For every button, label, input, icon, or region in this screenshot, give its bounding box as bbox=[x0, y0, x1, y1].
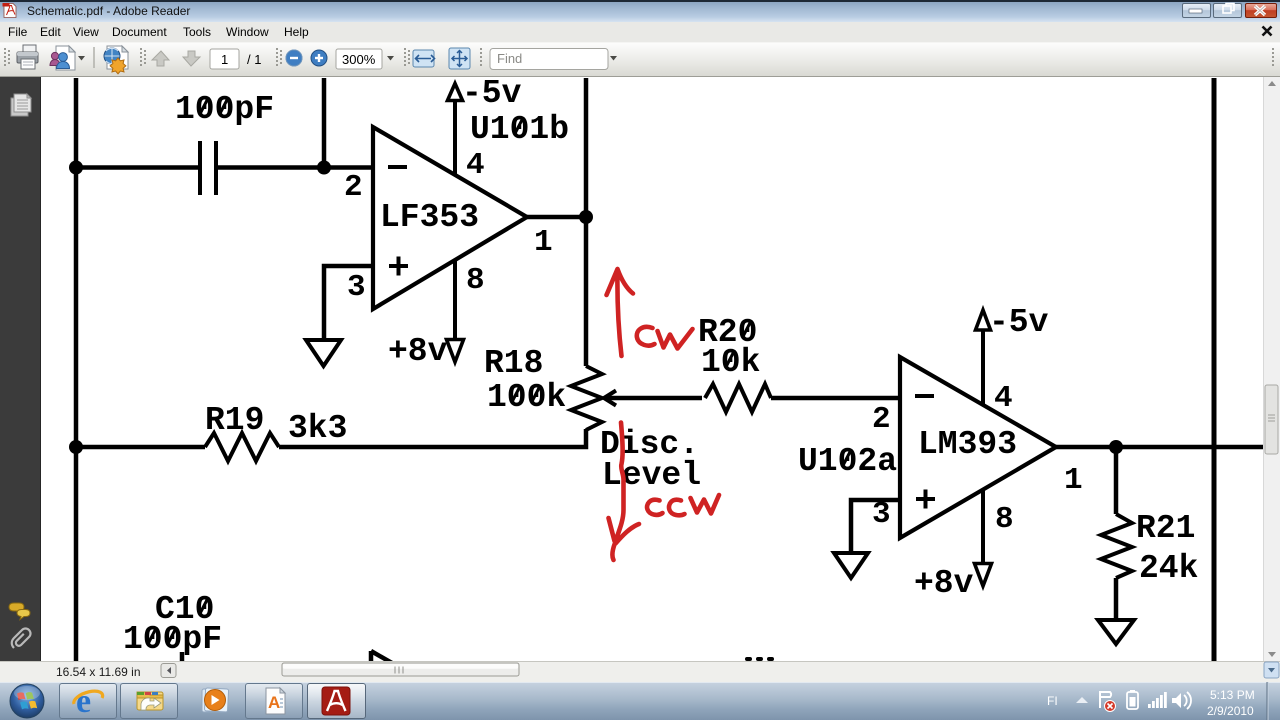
svg-text:1: 1 bbox=[534, 225, 553, 260]
svg-text:U102a: U102a bbox=[798, 443, 897, 480]
tray network bbox=[1148, 692, 1167, 708]
svg-text:3: 3 bbox=[347, 270, 366, 305]
svg-text:100pF: 100pF bbox=[123, 621, 222, 658]
word-doc icon bbox=[266, 688, 285, 714]
svg-text:-5v: -5v bbox=[989, 304, 1049, 341]
find box bbox=[490, 49, 608, 70]
svg-text:-5v: -5v bbox=[462, 75, 522, 112]
svg-text:e: e bbox=[76, 683, 91, 720]
resistor R20 body bbox=[705, 384, 771, 412]
node E junction dot bbox=[69, 440, 83, 454]
tray chevron bbox=[1076, 697, 1088, 703]
ground at R21 bbox=[1098, 620, 1134, 644]
wire node B up to top bbox=[322, 78, 327, 168]
zoom out / in bbox=[286, 50, 302, 66]
svg-text:24k: 24k bbox=[1139, 550, 1198, 587]
op-amp partial triangle at bottom edge bbox=[371, 651, 392, 663]
svg-text:LM393: LM393 bbox=[918, 426, 1017, 463]
node A junction dot bbox=[69, 161, 83, 175]
wire node B to U101 pin2 bbox=[324, 165, 373, 170]
fit page icon bbox=[449, 48, 470, 69]
svg-text:+8v: +8v bbox=[914, 565, 974, 602]
wire U101 pin3 bbox=[324, 266, 373, 340]
nav arrows bbox=[152, 51, 169, 66]
start orb bbox=[10, 684, 44, 718]
svg-text:R19: R19 bbox=[205, 402, 264, 439]
power +8v arrow U101 bbox=[447, 340, 464, 363]
explorer icon bbox=[137, 692, 163, 710]
node C junction dot bbox=[579, 210, 593, 224]
minus input symbol U102 bbox=[915, 394, 934, 398]
adobe reader icon bbox=[322, 687, 350, 715]
partial text tops at bottom edge bbox=[745, 657, 774, 661]
printer icon bbox=[17, 45, 38, 69]
ground at U102 pin3 bbox=[834, 553, 868, 578]
svg-text:FI: FI bbox=[1047, 694, 1058, 708]
power +8v arrow U102 bbox=[975, 564, 992, 587]
svg-text:8: 8 bbox=[466, 263, 485, 298]
slashed zeros overlay bbox=[149, 97, 852, 643]
tray speaker bbox=[1172, 692, 1191, 709]
svg-text:A: A bbox=[268, 693, 280, 712]
IE icon bbox=[74, 683, 103, 720]
power -5v arrow U102 bbox=[976, 310, 991, 330]
web capture icon bbox=[104, 46, 128, 74]
wire R19 to R18 bottom corner bbox=[279, 429, 586, 447]
annotation red cw text bbox=[637, 327, 693, 349]
wire U102 output rail bbox=[1056, 445, 1263, 450]
svg-text:Level: Level bbox=[602, 457, 701, 494]
node D junction dot bbox=[1109, 440, 1123, 454]
minus input symbol U101 bbox=[388, 165, 407, 169]
plus input symbol U102 bbox=[916, 490, 935, 509]
annotation red cw arrow bbox=[607, 269, 634, 356]
wire U102 pin3 bbox=[851, 500, 900, 553]
svg-text:R18: R18 bbox=[484, 345, 543, 382]
wire U101 pin4 stem bbox=[453, 100, 457, 175]
page box bbox=[210, 49, 239, 69]
fit width icon bbox=[413, 50, 435, 67]
svg-text:3k3: 3k3 bbox=[288, 410, 347, 447]
wire right vertical rail bbox=[1212, 78, 1217, 661]
zoom box bbox=[336, 49, 382, 69]
potentiometer R18 body bbox=[571, 366, 602, 430]
wire node D down to R21 bbox=[1114, 447, 1119, 514]
collaborate icon bbox=[50, 46, 75, 70]
resistor R19 body bbox=[205, 433, 279, 461]
capacitor C10 partial plate at bottom bbox=[180, 652, 185, 661]
show desktop divider bbox=[1266, 682, 1268, 720]
node B junction dot bbox=[317, 161, 331, 175]
wire R20 to U102 pin2 bbox=[771, 396, 900, 401]
svg-text:2: 2 bbox=[344, 170, 363, 205]
resistor R21 body bbox=[1101, 514, 1132, 578]
svg-text:LF353: LF353 bbox=[380, 199, 479, 236]
svg-text:R21: R21 bbox=[1136, 510, 1195, 547]
svg-text:2: 2 bbox=[872, 402, 891, 437]
wire R18 wiper to R20 bbox=[604, 396, 702, 401]
svg-text:100k: 100k bbox=[487, 379, 566, 416]
wire U102 pin8 stem bbox=[981, 489, 985, 563]
wire top net from left rail to C plate bbox=[76, 165, 200, 170]
annotation red ccw text bbox=[647, 495, 719, 515]
wmp icon bbox=[202, 688, 229, 712]
wire node C vertical rail down to R18 bbox=[584, 78, 589, 366]
power -5v arrow U101 bbox=[448, 84, 463, 101]
plus input symbol U101 bbox=[389, 257, 408, 276]
wire U102 pin4 stem bbox=[981, 330, 985, 406]
svg-text:3: 3 bbox=[872, 497, 891, 532]
svg-text:5:13 PM: 5:13 PM bbox=[1210, 688, 1255, 702]
svg-text:+8v: +8v bbox=[388, 333, 448, 370]
ground at U101 pin3 bbox=[306, 340, 341, 366]
tray battery bbox=[1127, 690, 1138, 709]
op-amp U101b LF353 triangle bbox=[373, 127, 527, 309]
wire C to node B bbox=[216, 165, 324, 170]
svg-text:U101b: U101b bbox=[470, 111, 569, 148]
svg-text:1: 1 bbox=[1064, 463, 1083, 498]
svg-text:4: 4 bbox=[994, 381, 1013, 416]
wire bottom net left rail to R19 bbox=[76, 445, 205, 450]
annotation red ccw arrow bbox=[609, 423, 640, 561]
svg-text:2/9/2010: 2/9/2010 bbox=[1207, 704, 1254, 718]
tray flag bbox=[1100, 692, 1116, 712]
potentiometer R18 wiper arrow bbox=[604, 391, 616, 406]
svg-text:4: 4 bbox=[466, 148, 485, 183]
wire left vertical rail bbox=[74, 78, 79, 661]
wire R21 to ground bbox=[1114, 578, 1119, 620]
svg-text:100pF: 100pF bbox=[175, 91, 274, 128]
svg-text:10k: 10k bbox=[701, 344, 760, 381]
svg-text:8: 8 bbox=[995, 502, 1014, 537]
op-amp U102a LM393 triangle bbox=[900, 357, 1056, 538]
wire U101 output to node C bbox=[527, 215, 586, 220]
capacitor 100pF plates bbox=[200, 141, 216, 195]
wire U101 pin8 stem bbox=[453, 260, 457, 339]
